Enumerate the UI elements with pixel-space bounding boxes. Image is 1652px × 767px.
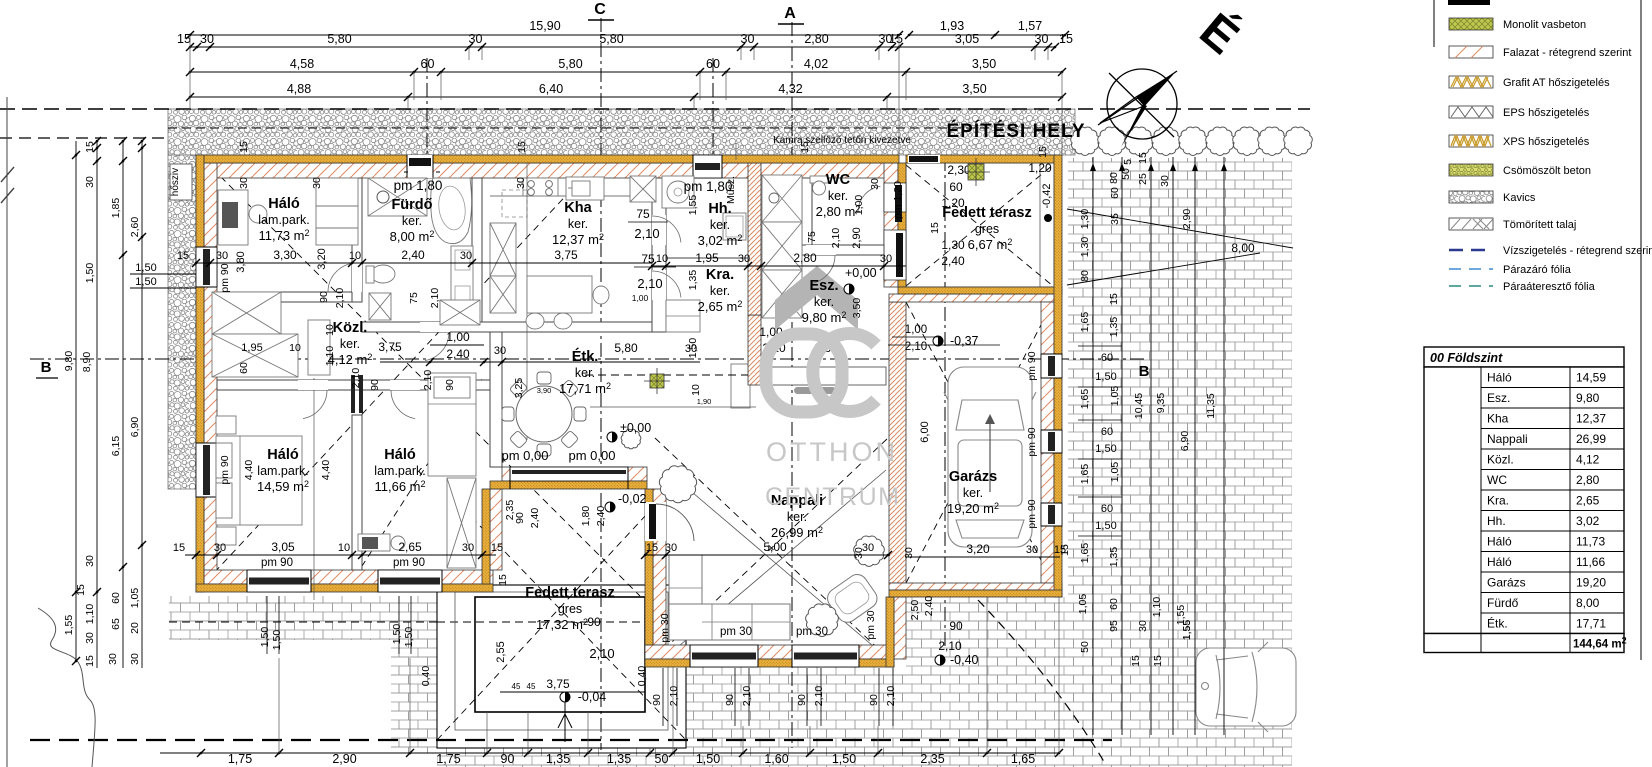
- svg-text:9,80: 9,80: [63, 351, 75, 372]
- svg-text:XPS hőszigetelés: XPS hőszigetelés: [1503, 136, 1590, 148]
- svg-text:60: 60: [706, 57, 720, 71]
- svg-text:15: 15: [1152, 655, 1164, 667]
- svg-text:30: 30: [1026, 544, 1038, 556]
- svg-text:10: 10: [349, 250, 361, 262]
- svg-text:11,73 m2: 11,73 m2: [258, 228, 309, 243]
- svg-text:2,80: 2,80: [793, 251, 817, 265]
- svg-text:90: 90: [796, 694, 808, 706]
- svg-text:1,35: 1,35: [607, 752, 631, 766]
- svg-text:2,10: 2,10: [905, 341, 927, 353]
- svg-text:ker.: ker.: [710, 218, 730, 232]
- svg-text:75: 75: [408, 292, 420, 304]
- svg-text:Falazat - rétegrend szerint: Falazat - rétegrend szerint: [1503, 47, 1631, 59]
- svg-text:1,55: 1,55: [687, 195, 699, 216]
- svg-text:11,73: 11,73: [1576, 535, 1605, 549]
- svg-text:11,66 m2: 11,66 m2: [374, 479, 425, 494]
- svg-text:30: 30: [214, 542, 226, 554]
- svg-text:60: 60: [1101, 352, 1113, 364]
- svg-text:1,65: 1,65: [1011, 752, 1035, 766]
- svg-text:1,60: 1,60: [764, 752, 788, 766]
- svg-text:Grafit AT hőszigetelés: Grafit AT hőszigetelés: [1503, 77, 1610, 89]
- svg-text:12,37 m2: 12,37 m2: [552, 232, 604, 247]
- svg-text:Vízszigetelés - rétegrend szer: Vízszigetelés - rétegrend szerint: [1503, 245, 1652, 257]
- svg-text:1,05: 1,05: [1077, 594, 1089, 615]
- svg-text:Esz.: Esz.: [809, 278, 838, 294]
- svg-text:65: 65: [110, 618, 122, 630]
- svg-text:15: 15: [889, 32, 903, 46]
- svg-text:3,90: 3,90: [537, 386, 552, 395]
- svg-text:1,50: 1,50: [1095, 371, 1116, 383]
- svg-text:15: 15: [1108, 293, 1120, 305]
- svg-text:1,30: 1,30: [941, 238, 965, 252]
- svg-text:hősziv: hősziv: [170, 168, 181, 196]
- svg-text:ÉPÍTÉSI HELY: ÉPÍTÉSI HELY: [946, 120, 1085, 142]
- svg-text:2,10: 2,10: [813, 686, 825, 707]
- svg-text:2,30: 2,30: [947, 163, 971, 177]
- svg-text:26,99: 26,99: [1576, 432, 1606, 446]
- svg-text:5,80: 5,80: [599, 32, 623, 46]
- svg-text:3,05: 3,05: [271, 540, 295, 554]
- svg-text:2,80: 2,80: [1576, 473, 1600, 487]
- svg-text:60: 60: [1108, 598, 1120, 610]
- svg-text:30: 30: [84, 632, 96, 644]
- svg-text:1,55: 1,55: [63, 615, 75, 636]
- svg-text:Háló: Háló: [268, 196, 300, 212]
- svg-text:2,90: 2,90: [332, 752, 356, 766]
- svg-text:3,02: 3,02: [1576, 514, 1600, 528]
- svg-text:30: 30: [515, 177, 527, 189]
- svg-text:30: 30: [107, 653, 119, 665]
- svg-text:1,00: 1,00: [853, 195, 865, 216]
- svg-text:5,80: 5,80: [558, 57, 582, 71]
- svg-text:2,10: 2,10: [422, 370, 434, 391]
- svg-text:30: 30: [494, 345, 506, 357]
- svg-text:ker.: ker.: [340, 337, 360, 351]
- svg-text:10: 10: [656, 253, 668, 265]
- svg-text:2,40: 2,40: [923, 596, 935, 617]
- svg-text:2,10: 2,10: [589, 646, 614, 661]
- svg-text:pm 1,20: pm 1,20: [892, 181, 904, 219]
- svg-text:75: 75: [641, 252, 655, 266]
- svg-text:90: 90: [651, 694, 663, 706]
- svg-text:1,20: 1,20: [1028, 161, 1052, 175]
- svg-text:1,75: 1,75: [436, 752, 460, 766]
- svg-text:2,40: 2,40: [595, 506, 607, 527]
- svg-text:OTTHON: OTTHON: [766, 437, 898, 467]
- svg-text:Garázs: Garázs: [1487, 576, 1526, 590]
- svg-text:50: 50: [1079, 641, 1091, 653]
- svg-text:ker.: ker.: [828, 189, 848, 203]
- svg-text:Tömörített talaj: Tömörített talaj: [1503, 219, 1576, 231]
- svg-text:15: 15: [238, 141, 250, 153]
- svg-text:30: 30: [853, 547, 865, 559]
- svg-text:60: 60: [1101, 503, 1113, 515]
- svg-text:±0,00: ±0,00: [620, 421, 651, 435]
- svg-text:Nappali: Nappali: [1487, 432, 1528, 446]
- svg-text:2,40: 2,40: [941, 254, 965, 268]
- svg-text:Páraáteresztő fólia: Páraáteresztő fólia: [1503, 281, 1596, 293]
- svg-text:90: 90: [724, 694, 736, 706]
- svg-text:gres: gres: [558, 602, 582, 616]
- svg-text:pm 0,00: pm 0,00: [569, 448, 616, 463]
- svg-text:1,93: 1,93: [940, 19, 964, 33]
- svg-text:2,90: 2,90: [851, 227, 863, 248]
- svg-text:6,00: 6,00: [919, 421, 931, 442]
- svg-text:ker.: ker.: [710, 284, 730, 298]
- svg-text:9,80: 9,80: [1576, 391, 1600, 405]
- svg-text:5,80: 5,80: [327, 32, 351, 46]
- svg-text:15: 15: [497, 574, 509, 586]
- svg-text:15: 15: [1037, 146, 1049, 158]
- svg-text:1,35: 1,35: [687, 270, 699, 291]
- svg-text:1,05: 1,05: [1109, 386, 1121, 407]
- svg-text:50: 50: [655, 752, 669, 766]
- svg-text:30: 30: [738, 253, 750, 265]
- svg-text:12,37: 12,37: [1576, 412, 1606, 426]
- svg-text:15: 15: [75, 584, 87, 596]
- svg-text:2,40: 2,40: [446, 347, 470, 361]
- svg-text:3,50: 3,50: [962, 82, 986, 96]
- svg-text:pm 0,00: pm 0,00: [502, 448, 549, 463]
- svg-text:1,50: 1,50: [84, 263, 96, 284]
- svg-text:30: 30: [84, 555, 96, 567]
- svg-text:1,50: 1,50: [1095, 520, 1116, 532]
- svg-text:60: 60: [1101, 426, 1113, 438]
- svg-text:10,45: 10,45: [1133, 393, 1145, 419]
- svg-text:30: 30: [460, 250, 472, 262]
- svg-text:2,50: 2,50: [909, 600, 921, 621]
- svg-text:gres: gres: [975, 222, 999, 236]
- svg-text:1,10: 1,10: [84, 604, 96, 625]
- svg-text:30: 30: [462, 542, 474, 554]
- svg-text:2,40: 2,40: [529, 508, 541, 529]
- svg-text:30: 30: [311, 177, 323, 189]
- svg-text:3,50: 3,50: [972, 57, 996, 71]
- svg-text:lam.park.: lam.park.: [258, 213, 309, 227]
- svg-text:10: 10: [289, 342, 301, 354]
- svg-text:4,40: 4,40: [243, 460, 255, 481]
- svg-text:10: 10: [324, 324, 336, 336]
- svg-text:6,90: 6,90: [129, 417, 141, 438]
- svg-text:Háló: Háló: [1487, 371, 1512, 385]
- svg-text:pm 1,80: pm 1,80: [394, 178, 443, 193]
- svg-text:8,00: 8,00: [1576, 596, 1600, 610]
- svg-text:1,65: 1,65: [1079, 543, 1091, 564]
- svg-text:1,85: 1,85: [110, 198, 122, 219]
- svg-text:90: 90: [587, 615, 601, 629]
- svg-text:6,40: 6,40: [539, 82, 563, 96]
- svg-text:45: 45: [527, 682, 536, 691]
- svg-text:1,00: 1,00: [632, 293, 649, 303]
- svg-text:4,32: 4,32: [778, 82, 802, 96]
- svg-text:Fürdő: Fürdő: [1487, 596, 1519, 610]
- svg-text:1,50: 1,50: [1095, 443, 1116, 455]
- svg-text:90: 90: [514, 512, 526, 524]
- svg-text:1,50: 1,50: [832, 752, 856, 766]
- svg-text:Kra.: Kra.: [706, 267, 734, 283]
- svg-text:1,65: 1,65: [1079, 464, 1091, 485]
- svg-text:2,65: 2,65: [1576, 494, 1600, 508]
- svg-text:4,88: 4,88: [287, 82, 311, 96]
- svg-text:3,75: 3,75: [554, 248, 578, 262]
- svg-text:Fedett terasz: Fedett terasz: [525, 585, 614, 601]
- svg-text:2,10: 2,10: [885, 686, 897, 707]
- svg-text:10: 10: [338, 542, 350, 554]
- svg-text:2,10: 2,10: [668, 686, 680, 707]
- svg-text:60: 60: [110, 592, 122, 604]
- svg-text:9,80 m2: 9,80 m2: [802, 310, 847, 325]
- svg-text:B: B: [41, 359, 52, 376]
- svg-text:8,00: 8,00: [1231, 241, 1255, 255]
- svg-text:15: 15: [1137, 152, 1149, 164]
- svg-text:8,00 m2: 8,00 m2: [390, 229, 435, 244]
- svg-text:pm 90: pm 90: [393, 557, 425, 569]
- svg-text:WC: WC: [826, 172, 851, 188]
- svg-text:1,50: 1,50: [135, 262, 156, 274]
- svg-text:60: 60: [949, 180, 963, 194]
- svg-text:-0,37: -0,37: [950, 334, 979, 348]
- svg-text:2,35: 2,35: [920, 752, 944, 766]
- svg-text:6,90: 6,90: [1179, 431, 1191, 452]
- svg-text:30: 30: [1035, 32, 1049, 46]
- svg-text:2,60: 2,60: [129, 217, 141, 238]
- svg-text:30: 30: [84, 176, 96, 188]
- svg-text:60: 60: [1109, 187, 1121, 199]
- svg-text:1,50: 1,50: [271, 630, 283, 651]
- svg-text:1,00: 1,00: [905, 324, 927, 336]
- svg-text:144,64 m2: 144,64 m2: [1573, 636, 1627, 651]
- svg-text:2,10: 2,10: [429, 288, 441, 309]
- svg-text:10: 10: [690, 384, 702, 396]
- svg-text:30: 30: [238, 177, 250, 189]
- svg-text:1,00: 1,00: [446, 330, 470, 344]
- svg-text:Kavics: Kavics: [1503, 192, 1536, 204]
- svg-text:3,20: 3,20: [966, 542, 990, 556]
- svg-text:WC: WC: [1487, 473, 1507, 487]
- svg-text:2,80: 2,80: [804, 32, 828, 46]
- svg-text:4,12: 4,12: [1576, 453, 1600, 467]
- svg-text:+0,00: +0,00: [845, 266, 877, 280]
- svg-text:15: 15: [84, 141, 96, 153]
- svg-text:-0,42: -0,42: [1041, 183, 1053, 208]
- svg-text:1,50: 1,50: [696, 752, 720, 766]
- svg-text:15: 15: [491, 542, 503, 554]
- svg-text:1,50: 1,50: [259, 627, 271, 648]
- svg-text:-0,40: -0,40: [950, 653, 979, 667]
- svg-text:B: B: [1139, 363, 1150, 380]
- svg-text:3,25: 3,25: [513, 378, 525, 399]
- svg-text:3,50: 3,50: [851, 298, 863, 319]
- svg-text:14,59: 14,59: [1576, 371, 1606, 385]
- svg-text:1,35: 1,35: [1108, 317, 1120, 338]
- svg-text:30: 30: [665, 542, 677, 554]
- svg-text:90: 90: [369, 379, 381, 391]
- svg-text:1,05: 1,05: [129, 588, 141, 609]
- svg-text:50: 50: [1120, 168, 1132, 180]
- svg-text:2,55: 2,55: [495, 641, 507, 662]
- svg-text:ker.: ker.: [402, 214, 422, 228]
- svg-text:pm 30: pm 30: [865, 610, 877, 639]
- svg-text:3,05: 3,05: [955, 32, 979, 46]
- svg-text:pm 90: pm 90: [1026, 427, 1038, 456]
- svg-text:30: 30: [216, 250, 228, 262]
- svg-text:ker.: ker.: [963, 486, 983, 500]
- svg-text:Háló: Háló: [1487, 555, 1512, 569]
- svg-text:Hh.: Hh.: [1487, 514, 1506, 528]
- svg-text:1,90: 1,90: [697, 397, 712, 406]
- svg-text:15: 15: [929, 222, 941, 234]
- svg-text:ker.: ker.: [575, 366, 595, 380]
- svg-text:1,65: 1,65: [1079, 312, 1091, 333]
- svg-text:75: 75: [636, 207, 650, 221]
- svg-text:ker.: ker.: [787, 510, 807, 524]
- svg-text:2,40: 2,40: [401, 248, 425, 262]
- svg-text:3,20: 3,20: [316, 248, 328, 269]
- svg-text:25: 25: [1137, 173, 1149, 185]
- svg-text:8,90: 8,90: [81, 352, 93, 373]
- svg-text:60: 60: [238, 362, 250, 374]
- svg-text:30: 30: [1159, 175, 1171, 187]
- svg-text:15: 15: [173, 542, 185, 554]
- svg-text:Műsz.: Műsz.: [725, 176, 737, 204]
- svg-text:A: A: [784, 5, 796, 22]
- svg-text:lam.park.: lam.park.: [374, 464, 425, 478]
- svg-text:1,10: 1,10: [324, 346, 336, 367]
- svg-text:30: 30: [903, 547, 915, 559]
- svg-text:30: 30: [741, 32, 755, 46]
- svg-text:pm 90: pm 90: [261, 557, 293, 569]
- svg-text:1,30: 1,30: [1079, 209, 1091, 230]
- svg-text:Párazáró fólia: Párazáró fólia: [1503, 264, 1572, 276]
- svg-text:Közl.: Közl.: [1487, 453, 1514, 467]
- svg-text:6,15: 6,15: [110, 436, 122, 457]
- svg-text:19,20: 19,20: [1576, 576, 1606, 590]
- svg-text:pm 90: pm 90: [1026, 499, 1038, 528]
- svg-text:11,66: 11,66: [1576, 555, 1605, 569]
- svg-text:0,40: 0,40: [420, 666, 432, 687]
- svg-text:2,65: 2,65: [398, 540, 422, 554]
- svg-text:1,50: 1,50: [687, 338, 699, 359]
- svg-text:1,20: 1,20: [941, 196, 965, 210]
- svg-text:-0,04: -0,04: [578, 690, 607, 704]
- svg-text:15,90: 15,90: [529, 19, 560, 33]
- svg-text:1,50: 1,50: [403, 627, 415, 648]
- svg-text:1,75: 1,75: [228, 752, 252, 766]
- svg-text:2,10: 2,10: [634, 226, 659, 241]
- svg-text:15: 15: [646, 542, 658, 554]
- svg-text:Étk.: Étk.: [572, 348, 599, 365]
- svg-text:-0,02: -0,02: [618, 492, 647, 506]
- svg-text:15: 15: [1130, 655, 1142, 667]
- svg-text:3,80: 3,80: [235, 251, 247, 272]
- svg-text:1,50: 1,50: [135, 276, 156, 288]
- svg-text:17,71 m2: 17,71 m2: [559, 381, 611, 396]
- svg-text:30: 30: [880, 253, 892, 265]
- svg-text:2,65 m2: 2,65 m2: [698, 299, 743, 314]
- svg-text:1,65: 1,65: [1079, 389, 1091, 410]
- svg-text:4,58: 4,58: [290, 57, 314, 71]
- svg-text:30: 30: [869, 178, 881, 190]
- svg-text:20: 20: [129, 622, 141, 634]
- svg-text:17,32 m2: 17,32 m2: [536, 617, 588, 632]
- svg-text:1,55: 1,55: [1181, 620, 1193, 641]
- svg-text:1,35: 1,35: [546, 752, 570, 766]
- svg-text:1,05: 1,05: [1109, 462, 1121, 483]
- svg-text:15: 15: [177, 32, 191, 46]
- svg-text:lam.park.: lam.park.: [257, 464, 308, 478]
- svg-text:Kamra szellőző tetőn kivezetve: Kamra szellőző tetőn kivezetve: [773, 135, 911, 146]
- svg-text:95: 95: [1108, 620, 1120, 632]
- svg-text:11,35: 11,35: [1205, 393, 1217, 419]
- svg-text:60: 60: [421, 57, 435, 71]
- svg-text:Közl.: Közl.: [333, 320, 368, 336]
- svg-text:30: 30: [129, 653, 141, 665]
- svg-text:3,02 m2: 3,02 m2: [698, 233, 743, 248]
- svg-text:17,71: 17,71: [1576, 617, 1606, 631]
- svg-text:90: 90: [949, 619, 963, 633]
- svg-text:15: 15: [177, 250, 189, 262]
- svg-text:5,00: 5,00: [763, 540, 787, 554]
- svg-text:00 Földszint: 00 Földszint: [1430, 351, 1503, 365]
- svg-text:90: 90: [444, 379, 456, 391]
- svg-text:Háló: Háló: [267, 447, 299, 463]
- svg-text:pm 30: pm 30: [796, 626, 828, 638]
- svg-text:2,10: 2,10: [637, 276, 662, 291]
- svg-text:1,10: 1,10: [1151, 597, 1163, 618]
- svg-text:1,80: 1,80: [580, 506, 592, 527]
- svg-text:1,95: 1,95: [241, 342, 262, 354]
- svg-text:30: 30: [469, 32, 483, 46]
- svg-text:15: 15: [1059, 32, 1073, 46]
- svg-text:1,30: 1,30: [1079, 237, 1091, 258]
- svg-text:3,75: 3,75: [546, 677, 570, 691]
- svg-text:CENTRUM: CENTRUM: [765, 483, 901, 511]
- svg-text:90: 90: [501, 752, 515, 766]
- svg-text:pm 30: pm 30: [720, 626, 752, 638]
- svg-text:35: 35: [1109, 213, 1121, 225]
- svg-text:15: 15: [1054, 544, 1066, 556]
- svg-text:30: 30: [1137, 620, 1149, 632]
- svg-text:26,99 m2: 26,99 m2: [771, 525, 823, 540]
- svg-text:80: 80: [1079, 270, 1091, 282]
- svg-text:2,10: 2,10: [350, 368, 362, 389]
- svg-text:Kha: Kha: [564, 200, 592, 216]
- svg-text:pm 90: pm 90: [219, 263, 231, 292]
- svg-text:C: C: [594, 1, 606, 18]
- svg-text:1,35: 1,35: [1108, 547, 1120, 568]
- svg-text:0,40: 0,40: [636, 666, 648, 687]
- svg-text:pm 90: pm 90: [1026, 351, 1038, 380]
- svg-text:Kha: Kha: [1487, 412, 1509, 426]
- svg-text:2,90: 2,90: [1181, 209, 1193, 230]
- svg-text:EPS hőszigetelés: EPS hőszigetelés: [1503, 107, 1590, 119]
- svg-text:3,30: 3,30: [273, 248, 297, 262]
- svg-text:Háló: Háló: [384, 447, 416, 463]
- svg-text:6,67 m2: 6,67 m2: [968, 237, 1013, 252]
- svg-text:15: 15: [84, 655, 96, 667]
- svg-text:30: 30: [200, 32, 214, 46]
- svg-text:5: 5: [1122, 159, 1134, 165]
- svg-text:14,59 m2: 14,59 m2: [257, 479, 309, 494]
- svg-text:1,57: 1,57: [1018, 19, 1042, 33]
- svg-text:9,35: 9,35: [1155, 393, 1167, 414]
- svg-text:Esz.: Esz.: [1487, 391, 1510, 405]
- svg-text:3,75: 3,75: [378, 340, 402, 354]
- svg-text:2,10: 2,10: [938, 639, 962, 653]
- svg-text:Csömöszölt beton: Csömöszölt beton: [1503, 165, 1591, 177]
- svg-text:19,20 m2: 19,20 m2: [947, 501, 999, 516]
- svg-text:Monolit vasbeton: Monolit vasbeton: [1503, 19, 1586, 31]
